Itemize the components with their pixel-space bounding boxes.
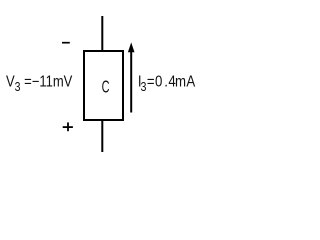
polarity plus sign xyxy=(63,122,73,131)
voltage label V3 = -11mV xyxy=(6,73,73,94)
component C (element box) xyxy=(84,51,123,120)
svg-text:C: C xyxy=(102,78,110,97)
wire (bottom lead) xyxy=(101,119,103,152)
label C xyxy=(102,78,110,97)
wire (top lead) xyxy=(101,16,103,52)
current arrow I3 xyxy=(128,42,135,112)
svg-text:V3 =−11mV: V3 =−11mV xyxy=(6,73,73,94)
svg-text:I3=0.4mA: I3=0.4mA xyxy=(138,74,196,95)
polarity minus sign xyxy=(62,42,70,44)
current label I3 = 0.4mA xyxy=(138,74,196,95)
